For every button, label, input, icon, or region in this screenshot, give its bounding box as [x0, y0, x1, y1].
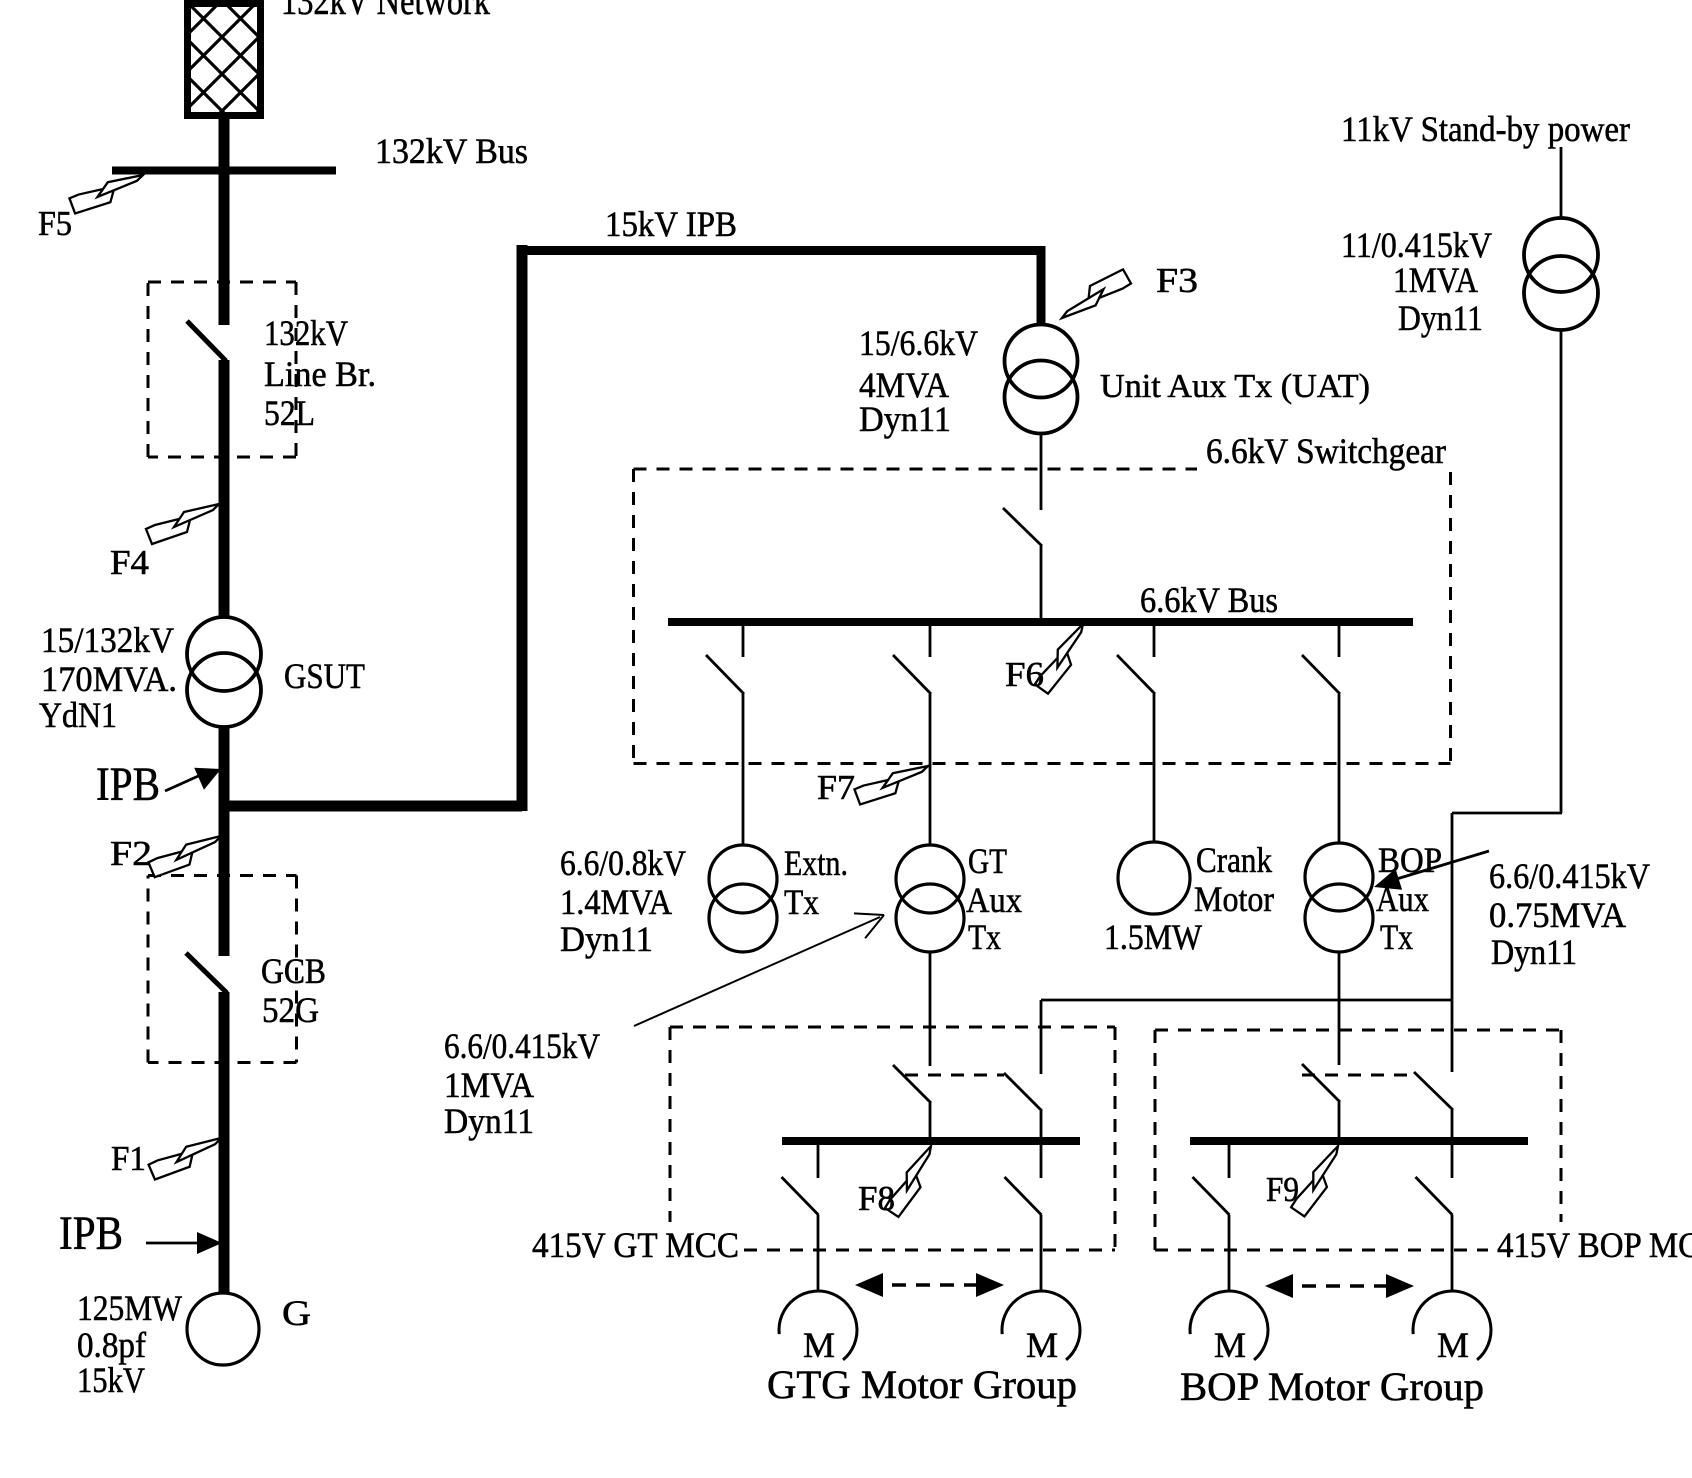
svg-text:132kV: 132kV [264, 313, 348, 353]
svg-text:GCB: GCB [261, 951, 326, 991]
svg-text:125MW: 125MW [77, 1288, 182, 1328]
svg-text:BOP: BOP [1378, 840, 1442, 880]
svg-text:11kV Stand-by power: 11kV Stand-by power [1341, 109, 1630, 149]
svg-text:Unit Aux Tx (UAT): Unit Aux Tx (UAT) [1100, 368, 1370, 405]
svg-text:6.6/0.8kV: 6.6/0.8kV [560, 843, 686, 883]
svg-text:1MVA: 1MVA [1393, 260, 1478, 300]
svg-text:132kV Bus: 132kV Bus [375, 131, 528, 171]
svg-text:IPB: IPB [96, 758, 160, 811]
svg-text:52L: 52L [264, 393, 315, 433]
svg-text:GT: GT [968, 841, 1007, 881]
svg-text:M: M [1026, 1325, 1058, 1365]
svg-text:Tx: Tx [784, 882, 819, 922]
svg-text:F6: F6 [1005, 655, 1044, 694]
svg-text:0.75MVA: 0.75MVA [1489, 895, 1626, 935]
svg-text:Crank: Crank [1196, 840, 1272, 880]
svg-text:GSUT: GSUT [284, 656, 365, 696]
svg-text:6.6kV Bus: 6.6kV Bus [1140, 580, 1278, 620]
svg-text:YdN1: YdN1 [39, 695, 117, 735]
svg-text:M: M [803, 1325, 835, 1365]
svg-text:15/6.6kV: 15/6.6kV [859, 323, 978, 363]
svg-text:F8: F8 [858, 1179, 895, 1218]
svg-text:415V GT MCC: 415V GT MCC [532, 1225, 739, 1265]
svg-text:M: M [1437, 1325, 1469, 1365]
svg-text:11/0.415kV: 11/0.415kV [1341, 225, 1492, 265]
svg-text:0.8pf: 0.8pf [77, 1325, 146, 1365]
svg-text:Aux: Aux [966, 880, 1022, 920]
svg-text:6.6/0.415kV: 6.6/0.415kV [1489, 856, 1650, 896]
svg-text:1.5MW: 1.5MW [1104, 917, 1202, 957]
svg-text:G: G [282, 1293, 311, 1333]
svg-text:Line Br.: Line Br. [264, 354, 376, 394]
svg-text:15/132kV: 15/132kV [41, 620, 174, 660]
svg-text:M: M [1214, 1325, 1246, 1365]
svg-text:F9: F9 [1266, 1170, 1299, 1209]
svg-text:Aux: Aux [1376, 879, 1429, 919]
svg-text:1.4MVA: 1.4MVA [560, 882, 672, 922]
svg-text:F2: F2 [110, 834, 152, 873]
svg-text:IPB: IPB [59, 1207, 123, 1260]
svg-text:F7: F7 [817, 768, 855, 807]
svg-text:170MVA.: 170MVA. [41, 659, 177, 699]
svg-text:52G: 52G [262, 990, 319, 1030]
svg-text:Dyn11: Dyn11 [1491, 932, 1577, 972]
svg-text:Dyn11: Dyn11 [859, 399, 951, 439]
svg-text:415V BOP MCC: 415V BOP MCC [1497, 1225, 1692, 1265]
svg-text:Extn.: Extn. [784, 843, 848, 883]
svg-text:Tx: Tx [1380, 917, 1413, 957]
svg-text:Dyn11: Dyn11 [560, 919, 653, 959]
svg-text:Dyn11: Dyn11 [444, 1101, 534, 1141]
svg-text:F1: F1 [111, 1139, 146, 1178]
svg-text:F4: F4 [110, 543, 149, 582]
svg-text:15kV: 15kV [77, 1360, 145, 1400]
svg-text:GTG Motor Group: GTG Motor Group [767, 1362, 1077, 1407]
svg-text:1MVA: 1MVA [444, 1065, 534, 1105]
svg-text:Dyn11: Dyn11 [1398, 298, 1483, 338]
svg-text:BOP Motor Group: BOP Motor Group [1180, 1364, 1484, 1409]
svg-text:Motor: Motor [1194, 879, 1274, 919]
svg-text:F5: F5 [38, 204, 72, 243]
svg-text:132kV Network: 132kV Network [281, 0, 490, 23]
svg-text:F3: F3 [1156, 261, 1198, 300]
svg-text:15kV IPB: 15kV IPB [605, 204, 737, 244]
svg-text:Tx: Tx [968, 917, 1001, 957]
svg-text:6.6kV Switchgear: 6.6kV Switchgear [1206, 431, 1446, 471]
svg-text:6.6/0.415kV: 6.6/0.415kV [444, 1026, 600, 1066]
